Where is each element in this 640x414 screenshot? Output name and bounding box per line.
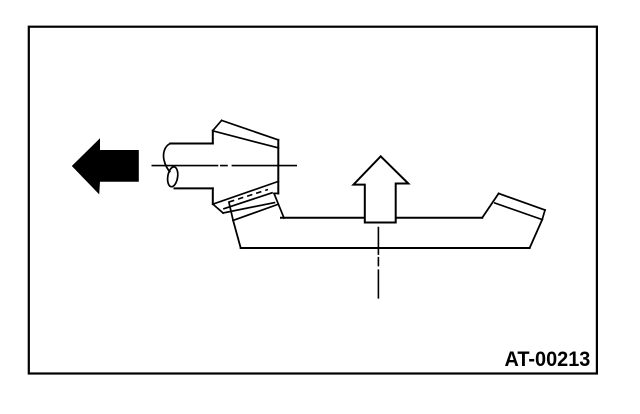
block top slope lower line [215,131,279,148]
block right edge [277,140,279,194]
collar hidden dashed line [229,190,268,203]
vertical dash-dot centerline below up arrow [377,228,379,298]
collar lower silhouette line C [233,204,278,220]
neck jog under block [274,192,278,194]
block left edge (lower segment) [212,188,214,204]
lever right end band upper line [499,194,545,211]
collar left edge [229,202,233,220]
cylindrical rod: end face ellipse [166,166,179,187]
neck slant to lever [274,194,284,218]
svg-text:AT-00213: AT-00213 [505,347,591,371]
solid black arrow pointing left [72,138,139,194]
collar front top line B [224,193,272,209]
block top slope upper line [222,120,279,139]
cylindrical rod: bottom edge [175,187,213,189]
lever right upper slant [482,194,498,218]
block bottom-left chamfer [213,204,223,213]
block left edge (upper segment) [212,131,214,144]
lever top edge right segment [397,217,482,219]
up arrow outline [354,156,409,222]
cylindrical rod: left end silhouette arc [164,144,171,172]
cylindrical rod: top edge [170,143,212,145]
lever right end band lower line [495,203,542,220]
collar front bottom line B2 [223,203,274,213]
horizontal dash-dot centerline of rod [152,165,296,167]
lever right lower slant [530,220,543,248]
lever right end band right edge [542,210,545,220]
border frame [29,27,597,374]
lever left slant edge [233,220,241,248]
lever bottom edge [241,247,530,249]
block top-left chamfer [213,120,222,130]
collar top silhouette line A [214,181,279,204]
lever top edge left segment [281,217,364,219]
